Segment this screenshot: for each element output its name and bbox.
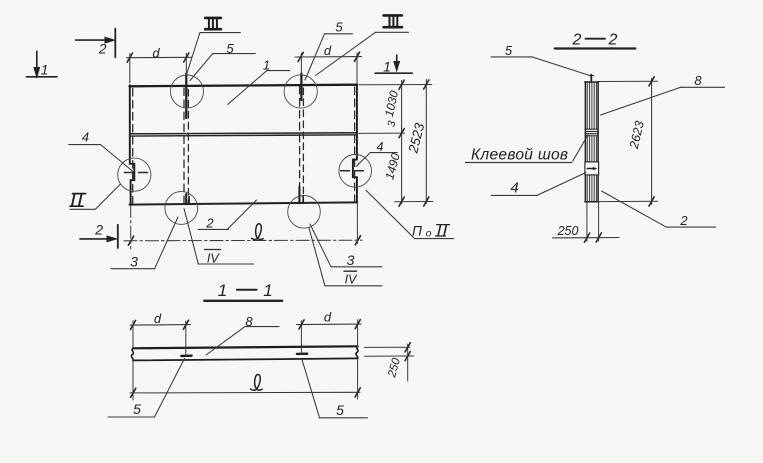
strip hatch segment 1 [587, 83, 596, 129]
svg-text:IV: IV [207, 251, 220, 265]
panel middle joint double line [130, 133, 357, 134]
svg-text:8: 8 [694, 73, 702, 88]
l dimension bottom view [130, 391, 360, 394]
extension below corners [130, 206, 132, 250]
joint 2 dashed pair [299, 87, 301, 203]
detail circle bottom-left [165, 192, 198, 225]
glue seam joint lines [585, 129, 598, 136]
view mark III right [384, 15, 402, 27]
svg-text:2: 2 [608, 32, 618, 49]
script ell main view [252, 224, 264, 240]
l dimension line main view [124, 239, 362, 242]
bolt mark 1 [181, 355, 191, 358]
svg-text:4: 4 [377, 140, 384, 154]
250 dimension bottom view [365, 346, 410, 348]
detail circle top-right [284, 75, 317, 108]
section mark 1 top-right [396, 55, 398, 63]
svg-text:1: 1 [218, 281, 227, 300]
dimension line 1030/1490 [401, 81, 403, 204]
svg-text:П: П [412, 224, 422, 239]
panel right edge with notch [353, 85, 357, 203]
right dim ticks [399, 80, 404, 89]
dimension line d top-left [127, 56, 192, 58]
svg-text:5: 5 [133, 401, 141, 417]
script ell bottom view [251, 374, 263, 390]
extension lines above top edge [129, 54, 131, 84]
dimension line 2523 [425, 80, 427, 204]
250 dimension side view [586, 202, 588, 241]
strip outline [584, 82, 586, 202]
extension lines above bar [132, 321, 134, 347]
fastener pin bottom-right [298, 187, 300, 203]
extension lines below bar [132, 360, 134, 400]
detail circle left notch [118, 158, 151, 191]
svg-text:d: d [324, 43, 332, 58]
svg-text:d: d [152, 46, 160, 61]
svg-text:5: 5 [505, 43, 513, 58]
detail circle right notch [339, 155, 372, 188]
svg-text:2: 2 [679, 213, 688, 228]
svg-text:d: d [154, 311, 162, 326]
hidden dashed line along left edge [132, 89, 134, 204]
right notch hidden center dash [341, 170, 367, 172]
section mark 2 top-left [76, 39, 106, 41]
fastener pin bottom-left [185, 194, 187, 204]
svg-text:2: 2 [572, 32, 582, 49]
bar top line [133, 346, 358, 348]
svg-text:3: 3 [347, 252, 355, 268]
view mark III left [205, 18, 221, 29]
hidden dashed line along right edge [354, 87, 356, 201]
panel outline bottom edge [130, 202, 358, 204]
strip hatch segment 2 [587, 137, 596, 162]
joint 1 dashed pair [183, 88, 185, 204]
bar left break squiggle [131, 348, 133, 360]
svg-text:250: 250 [557, 224, 579, 238]
detail circle top-left [171, 75, 204, 108]
svg-text:2: 2 [94, 222, 103, 238]
svg-text:1: 1 [383, 59, 391, 75]
svg-text:3: 3 [130, 254, 138, 270]
svg-text:2: 2 [98, 41, 107, 57]
fastener pin top-right [300, 74, 302, 101]
section mark 1 left [36, 51, 38, 68]
section mark 2 bottom-left [80, 238, 111, 240]
key box detail 4 [585, 162, 599, 175]
left notch hidden center dash [125, 172, 151, 174]
panel outline top edge [130, 85, 358, 87]
2623 dimension [599, 80, 658, 82]
svg-text:о: о [426, 228, 432, 240]
dim ticks top [127, 53, 132, 62]
detail circle bottom-right [288, 196, 321, 229]
fastener pin top-left [185, 74, 187, 119]
bar bottom line [133, 358, 358, 360]
strip hatch segment 3 [587, 176, 596, 202]
svg-text:4: 4 [510, 180, 518, 197]
svg-text:5: 5 [335, 19, 343, 34]
svg-text:d: d [324, 310, 332, 325]
view mark II left [70, 194, 86, 207]
svg-text:Клеевой шов: Клеевой шов [471, 147, 568, 164]
svg-text:4: 4 [82, 130, 89, 145]
svg-text:2: 2 [205, 215, 214, 230]
svg-text:IV: IV [345, 272, 358, 286]
svg-text:1: 1 [41, 62, 49, 78]
bolt mark 2 [297, 353, 307, 356]
svg-text:5: 5 [336, 402, 344, 418]
right dimension extension lines [359, 84, 432, 86]
d dimension lines bottom view [130, 324, 191, 327]
svg-text:1: 1 [263, 281, 272, 300]
pin on strip top [590, 75, 592, 82]
bar right break squiggle [356, 346, 358, 358]
panel left edge with notch [130, 85, 135, 204]
dimension line d top-right [295, 56, 362, 58]
